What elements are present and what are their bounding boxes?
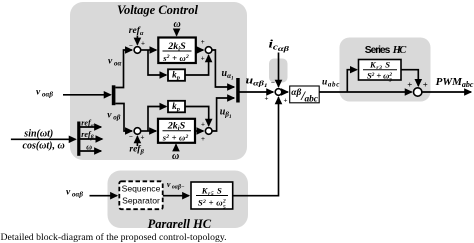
svg-text:ω: ω bbox=[86, 143, 92, 152]
svg-text:+: + bbox=[201, 121, 205, 129]
svg-text:PWMabc: PWMabc bbox=[436, 76, 474, 89]
svg-text:−: − bbox=[129, 42, 133, 50]
svg-text:Series: Series bbox=[365, 45, 391, 56]
svg-text:HC: HC bbox=[392, 45, 407, 56]
svg-text:Sequence: Sequence bbox=[122, 184, 161, 194]
svg-text:v oαβ: v oαβ bbox=[66, 188, 83, 199]
svg-text:s2 + ω2: s2 + ω2 bbox=[162, 53, 189, 63]
svg-text:+: + bbox=[201, 38, 205, 46]
svg-text:cos(ωt), ω: cos(ωt), ω bbox=[23, 141, 65, 152]
svg-text:+: + bbox=[423, 80, 428, 90]
svg-text:s2 + ω2: s2 + ω2 bbox=[162, 132, 189, 142]
svg-text:Voltage Control: Voltage Control bbox=[117, 3, 198, 17]
svg-text:ω: ω bbox=[172, 151, 179, 162]
svg-text:sin(ωt): sin(ωt) bbox=[23, 128, 53, 139]
svg-text:+: + bbox=[407, 80, 412, 90]
svg-text:2kiS: 2kiS bbox=[167, 41, 186, 53]
svg-text:αβ: αβ bbox=[291, 88, 301, 98]
svg-text:Pararell HC: Pararell HC bbox=[148, 217, 212, 231]
svg-text:Detailed block-diagram of the: Detailed block-diagram of the proposed c… bbox=[1, 232, 227, 243]
svg-text:2kiS: 2kiS bbox=[167, 120, 186, 132]
svg-text:Separator: Separator bbox=[122, 196, 160, 206]
svg-text:+: + bbox=[284, 97, 288, 105]
svg-text:uαβ1: uαβ1 bbox=[246, 76, 268, 90]
svg-text:abc: abc bbox=[305, 95, 318, 105]
svg-text:v oαβ: v oαβ bbox=[36, 88, 53, 99]
svg-text:−: − bbox=[271, 79, 275, 87]
svg-text:−: − bbox=[129, 133, 133, 141]
svg-text:+: + bbox=[141, 40, 145, 48]
svg-text:+: + bbox=[201, 55, 205, 63]
svg-text:+: + bbox=[265, 95, 269, 103]
svg-text:icαβ: icαβ bbox=[269, 39, 290, 54]
svg-text:ω: ω bbox=[174, 19, 181, 30]
svg-text:+: + bbox=[141, 134, 145, 142]
svg-text:+: + bbox=[201, 135, 205, 143]
svg-text:uabc: uabc bbox=[322, 78, 339, 89]
